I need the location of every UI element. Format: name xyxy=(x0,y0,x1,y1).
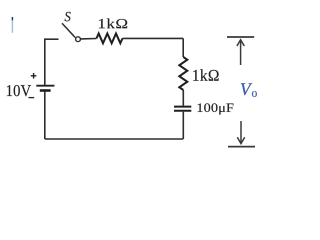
label 1kΩ (R2) xyxy=(193,69,218,81)
annotation: V0 bottom reference bar xyxy=(228,146,255,148)
resistor R1 1kΩ (horizontal zigzag) xyxy=(97,34,123,44)
wire: bottom xyxy=(45,138,183,140)
cursor artifact (blue caret) xyxy=(11,17,13,33)
wire: left side above battery xyxy=(44,38,46,85)
wire: top-left corner to switch xyxy=(45,38,59,40)
switch S xyxy=(62,23,80,41)
resistor R2 1kΩ (vertical zigzag) xyxy=(179,57,187,90)
label 100μF (C1) xyxy=(198,103,234,114)
wire: switch to resistor R1 xyxy=(80,38,96,40)
label V0 xyxy=(241,83,252,95)
annotation: V0 top reference bar xyxy=(227,36,254,38)
wire: left side below battery xyxy=(44,92,46,140)
battery V1 10V xyxy=(36,86,54,91)
wire: R1 to top-right corner xyxy=(123,37,184,39)
label + polarity xyxy=(31,73,37,79)
wire: R2 to capacitor C1 xyxy=(182,90,184,106)
wire: C1 to bottom-right corner xyxy=(182,112,184,139)
capacitor C1 100μF xyxy=(174,107,191,111)
label V0 subscript xyxy=(252,91,257,97)
annotation: V0 down arrow xyxy=(237,121,244,144)
label 10V xyxy=(7,85,31,96)
label S xyxy=(65,12,71,21)
annotation: V0 up arrow xyxy=(237,40,244,65)
label − polarity xyxy=(29,97,35,99)
wire: right side, corner down to resistor R2 xyxy=(182,38,184,57)
label 1kΩ (R1) xyxy=(99,19,127,29)
